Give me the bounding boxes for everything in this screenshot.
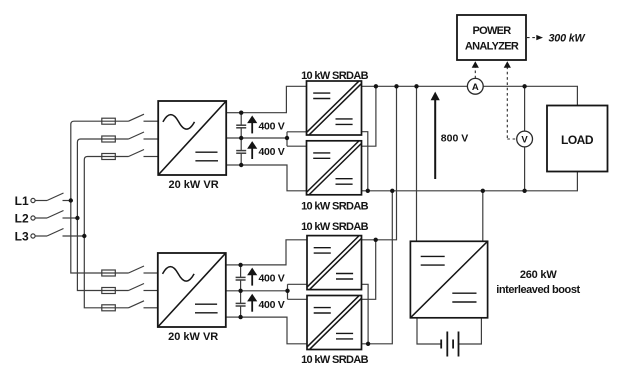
svg-text:400 V: 400 V	[259, 299, 285, 311]
svg-text:260 kW: 260 kW	[520, 269, 558, 281]
svg-text:400 V: 400 V	[259, 121, 285, 133]
svg-text:V: V	[521, 135, 528, 146]
svg-text:10 kW SRDAB: 10 kW SRDAB	[301, 201, 369, 213]
svg-text:10 kW SRDAB: 10 kW SRDAB	[301, 354, 369, 366]
svg-text:L1: L1	[15, 194, 29, 208]
svg-text:L2: L2	[15, 211, 29, 225]
svg-text:POWER: POWER	[472, 25, 511, 37]
svg-text:LOAD: LOAD	[561, 133, 594, 147]
svg-text:20 kW VR: 20 kW VR	[168, 331, 218, 343]
svg-text:400 V: 400 V	[259, 146, 285, 158]
svg-text:800 V: 800 V	[441, 132, 468, 144]
svg-text:ANALYZER: ANALYZER	[465, 41, 519, 53]
svg-text:interleaved boost: interleaved boost	[496, 284, 580, 296]
svg-text:L3: L3	[15, 229, 29, 243]
svg-text:10 kW SRDAB: 10 kW SRDAB	[301, 70, 369, 82]
svg-text:300 kW: 300 kW	[549, 33, 586, 45]
svg-text:10 kW SRDAB: 10 kW SRDAB	[301, 221, 369, 233]
svg-text:20 kW VR: 20 kW VR	[169, 179, 219, 191]
svg-text:400 V: 400 V	[259, 273, 285, 285]
svg-text:A: A	[472, 82, 479, 93]
